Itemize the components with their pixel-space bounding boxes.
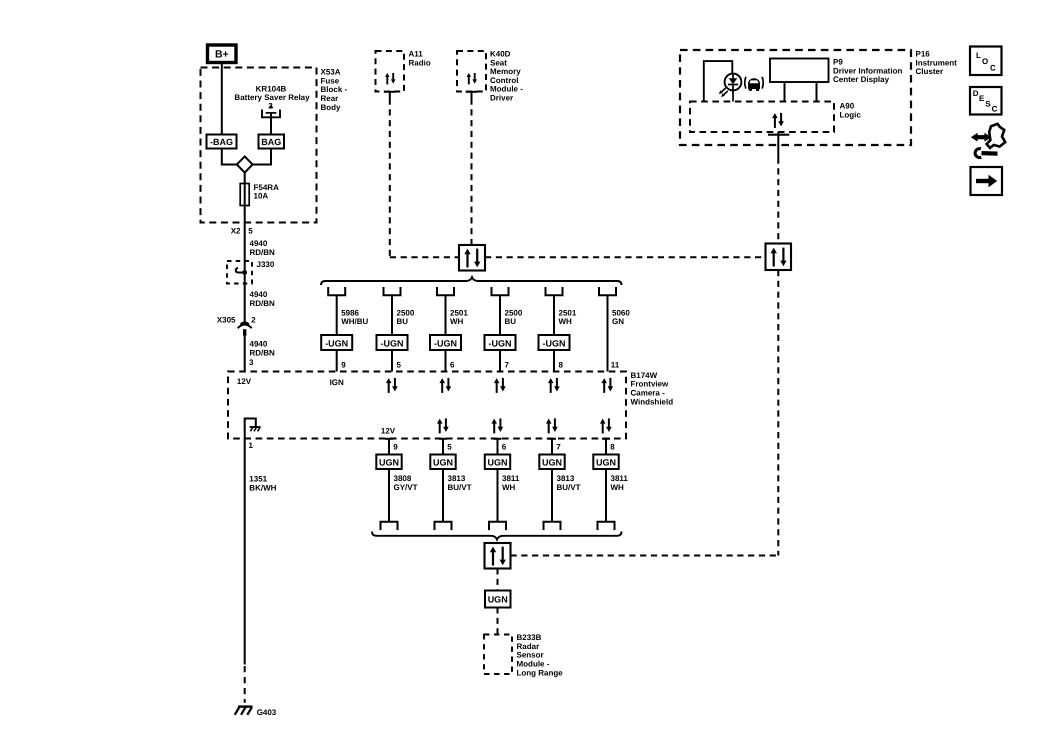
svg-text:Block -: Block - bbox=[321, 85, 348, 94]
svg-text:RD/BN: RD/BN bbox=[250, 248, 276, 257]
svg-text:3813: 3813 bbox=[448, 474, 466, 483]
svg-text:2500: 2500 bbox=[397, 308, 415, 317]
svg-text:X53A: X53A bbox=[321, 68, 341, 77]
svg-text:12V: 12V bbox=[237, 377, 252, 386]
svg-text:4940: 4940 bbox=[250, 239, 268, 248]
terminal box UGN bbox=[430, 455, 455, 470]
connector cup down wire 2 bbox=[435, 522, 452, 530]
svg-text:8: 8 bbox=[610, 443, 615, 452]
wire 2501 WH bbox=[445, 295, 447, 371]
module K40D Seat Memory Control dashed box bbox=[457, 50, 523, 103]
svg-text:Rear: Rear bbox=[321, 94, 339, 103]
svg-text:WH: WH bbox=[559, 317, 573, 326]
arrows pin 11 bbox=[601, 378, 613, 393]
svg-text:3811: 3811 bbox=[611, 474, 629, 483]
wire K40D serial data (dashed) bbox=[471, 99, 473, 246]
battery positive B+ terminal bbox=[208, 45, 237, 63]
svg-text:5: 5 bbox=[397, 360, 402, 369]
terminal box -UGN wire 1 bbox=[321, 335, 352, 350]
svg-text:S: S bbox=[985, 99, 991, 108]
svg-text:6: 6 bbox=[450, 360, 455, 369]
svg-text:2: 2 bbox=[251, 316, 256, 325]
svg-text:WH: WH bbox=[450, 317, 464, 326]
svg-text:WH: WH bbox=[502, 483, 516, 492]
pin bar 7 bbox=[548, 439, 556, 455]
terminal box -BAG bbox=[207, 135, 237, 149]
brace under radar connector bbox=[372, 532, 622, 540]
terminal box -UGN wire 5 bbox=[539, 335, 570, 350]
svg-text:Control: Control bbox=[490, 76, 518, 85]
K40D pin terminal bar bbox=[466, 92, 478, 99]
legend forward arrow box bbox=[971, 167, 1003, 195]
svg-text:2500: 2500 bbox=[505, 308, 523, 317]
wire 3808 GY/VT bbox=[388, 469, 390, 522]
arrows bottom pin 5 bbox=[437, 418, 449, 433]
svg-text:5: 5 bbox=[248, 227, 253, 236]
svg-text:10A: 10A bbox=[254, 192, 269, 201]
label X53A Fuse Block - Rear Body bbox=[321, 68, 348, 112]
wire dashed junction to right riser bbox=[511, 555, 779, 557]
svg-text:Seat: Seat bbox=[490, 58, 507, 67]
pin bar 9 bbox=[385, 439, 393, 455]
svg-text:L: L bbox=[976, 51, 981, 60]
pin bar 6 bbox=[494, 439, 502, 455]
svg-text:K40D: K40D bbox=[490, 50, 511, 59]
svg-text:-BAG: -BAG bbox=[210, 137, 233, 147]
svg-text:UGN: UGN bbox=[488, 595, 508, 605]
svg-text:5060: 5060 bbox=[612, 308, 630, 317]
ground G403 symbol bbox=[235, 707, 253, 715]
svg-text:9: 9 bbox=[393, 443, 398, 452]
svg-text:Radio: Radio bbox=[409, 58, 431, 67]
arrows pin 7 bbox=[494, 378, 506, 393]
terminal box UGN bbox=[593, 455, 618, 470]
connector cup wire 3 bbox=[437, 287, 454, 295]
svg-text:3813: 3813 bbox=[557, 474, 575, 483]
internal chassis ground symbol bbox=[250, 427, 261, 431]
wire B+ to -BAG bbox=[221, 63, 223, 135]
svg-text:RD/BN: RD/BN bbox=[250, 299, 276, 308]
wire 5060 GN bbox=[607, 295, 609, 371]
svg-text:UGN: UGN bbox=[596, 457, 616, 467]
svg-text:IGN: IGN bbox=[330, 378, 344, 387]
arrows pin 6 bbox=[439, 378, 451, 393]
terminal box UGN bbox=[539, 455, 564, 470]
arrows bottom pin 8 bbox=[600, 418, 612, 433]
svg-text:J330: J330 bbox=[257, 260, 275, 269]
instrument cluster P16 dashed box bbox=[680, 50, 957, 145]
diamond junction node bbox=[237, 156, 253, 172]
svg-text:Radar: Radar bbox=[517, 642, 540, 651]
svg-text:GN: GN bbox=[612, 317, 624, 326]
terminal box -UGN wire 4 bbox=[485, 335, 516, 350]
wire coil to BAG bbox=[270, 113, 272, 135]
lane car telltale icon bbox=[745, 77, 764, 91]
svg-text:Logic: Logic bbox=[840, 110, 862, 119]
svg-text:D: D bbox=[973, 89, 979, 98]
svg-text:-UGN: -UGN bbox=[489, 338, 512, 348]
svg-text:1351: 1351 bbox=[249, 475, 267, 484]
LED indicator bbox=[725, 74, 742, 102]
terminal box UGN radar bbox=[485, 591, 511, 608]
arrows bottom pin 7 bbox=[546, 418, 558, 433]
wire dashed A11 to junction box bbox=[390, 256, 459, 258]
wire 3813 BU/VT bbox=[442, 469, 444, 522]
wire dashed to G403 bbox=[244, 666, 246, 703]
connector cup wire 4 bbox=[492, 287, 509, 295]
A90 serial data arrows bbox=[772, 113, 784, 128]
connector cup down wire 5 bbox=[598, 522, 615, 530]
svg-text:Windshield: Windshield bbox=[631, 397, 674, 406]
svg-text:C: C bbox=[992, 105, 998, 114]
svg-text:Module -: Module - bbox=[490, 85, 523, 94]
wire P16 serial data (dashed) bbox=[777, 158, 779, 244]
serial data junction box lower bbox=[485, 543, 511, 569]
svg-text:-UGN: -UGN bbox=[381, 338, 404, 348]
connector cup down wire 4 bbox=[544, 522, 561, 530]
svg-text:7: 7 bbox=[505, 360, 510, 369]
connector cup wire 5 bbox=[546, 287, 563, 295]
svg-text:12V: 12V bbox=[381, 427, 396, 436]
svg-text:RD/BN: RD/BN bbox=[250, 348, 276, 357]
pin bar 5 bbox=[439, 439, 447, 455]
A11 serial data arrows bbox=[385, 73, 396, 84]
arrows pin 8 bbox=[548, 378, 560, 393]
svg-text:Sensor: Sensor bbox=[517, 651, 544, 660]
svg-text:B233B: B233B bbox=[517, 633, 542, 642]
svg-text:G403: G403 bbox=[257, 708, 277, 717]
svg-text:2501: 2501 bbox=[450, 308, 468, 317]
fuse block X53A dashed outline bbox=[201, 68, 317, 223]
connector cup down wire 3 bbox=[489, 522, 506, 530]
connector cup wire 2 bbox=[384, 287, 401, 295]
connector cup wire 6 bbox=[599, 287, 616, 295]
wire X305 to camera pin 3 bbox=[244, 336, 246, 372]
wire label 4940 RD/BN bbox=[250, 340, 276, 358]
svg-text:BK/WH: BK/WH bbox=[249, 483, 276, 492]
brace over camera connector bbox=[321, 277, 622, 285]
wire 3811 WH bbox=[497, 469, 499, 522]
svg-text:A11: A11 bbox=[409, 50, 424, 59]
wire dashed junction down to UGN bbox=[497, 569, 499, 591]
svg-text:-UGN: -UGN bbox=[543, 338, 566, 348]
connector cup wire 1 bbox=[328, 287, 345, 295]
svg-text:Driver Information: Driver Information bbox=[833, 66, 902, 75]
svg-text:11: 11 bbox=[611, 360, 620, 369]
arrows pin 5 bbox=[386, 378, 398, 393]
wire label 4940 RD/BN bbox=[250, 239, 276, 257]
svg-text:Module -: Module - bbox=[517, 660, 550, 669]
svg-text:B+: B+ bbox=[215, 49, 229, 61]
LED emission arrows bbox=[719, 88, 728, 97]
wire J330 to X305 bbox=[244, 273, 246, 323]
svg-text:-UGN: -UGN bbox=[434, 338, 457, 348]
module A11 Radio dashed box bbox=[376, 50, 431, 92]
svg-text:B174W: B174W bbox=[631, 371, 658, 380]
svg-text:Driver: Driver bbox=[490, 94, 513, 103]
svg-text:8: 8 bbox=[559, 360, 564, 369]
svg-text:6: 6 bbox=[502, 443, 507, 452]
relay KR104B label bbox=[234, 84, 310, 110]
splice J330 junction dot and hook bbox=[236, 268, 247, 275]
display P9 Driver Information Center Display bbox=[770, 58, 902, 102]
svg-text:O: O bbox=[982, 57, 988, 66]
wire label 4940 RD/BN bbox=[250, 290, 276, 308]
indicator branch outline bbox=[704, 61, 733, 101]
svg-text:-UGN: -UGN bbox=[325, 338, 348, 348]
pin bar 8 bbox=[602, 439, 610, 455]
wire dashed junction to junction bbox=[485, 256, 766, 258]
svg-text:Fuse: Fuse bbox=[321, 76, 340, 85]
svg-text:9: 9 bbox=[341, 360, 346, 369]
wire A11 serial data (dashed) bbox=[389, 99, 391, 258]
terminal box BAG bbox=[259, 135, 285, 149]
label B174W Frontview Camera - Windshield bbox=[631, 371, 674, 406]
svg-text:1: 1 bbox=[249, 441, 254, 450]
svg-text:Body: Body bbox=[321, 103, 342, 112]
svg-text:BU: BU bbox=[505, 317, 517, 326]
wire 5986 WH/BU bbox=[336, 295, 338, 371]
connector cup down wire 1 bbox=[381, 522, 398, 530]
svg-text:A90: A90 bbox=[840, 102, 855, 111]
logic block A90 dashed box bbox=[690, 102, 861, 133]
svg-text:F54RA: F54RA bbox=[254, 183, 280, 192]
svg-text:E: E bbox=[979, 94, 985, 103]
arrows bottom pin 6 bbox=[491, 418, 503, 433]
svg-text:Center Display: Center Display bbox=[833, 75, 890, 84]
svg-text:WH: WH bbox=[611, 483, 625, 492]
P16 pin terminal bar bbox=[768, 132, 789, 158]
wire 2500 BU bbox=[391, 295, 393, 371]
terminal box UGN bbox=[485, 455, 510, 470]
wire 2501 WH bbox=[553, 295, 555, 371]
K40D serial data arrows bbox=[467, 73, 478, 84]
svg-text:UGN: UGN bbox=[542, 457, 562, 467]
A11 pin terminal bar bbox=[384, 92, 396, 99]
svg-text:BU: BU bbox=[397, 317, 409, 326]
terminal box -UGN wire 3 bbox=[430, 335, 461, 350]
wire dashed UGN to radar module bbox=[497, 608, 499, 635]
splice J330 dashed enclosure bbox=[227, 260, 275, 283]
relay KR104B coil terminal 2 connector cup bbox=[262, 104, 280, 117]
wire diamond to fuse and down to J330 bbox=[244, 173, 246, 273]
svg-text:3808: 3808 bbox=[394, 474, 412, 483]
svg-text:WH/BU: WH/BU bbox=[341, 317, 368, 326]
legend LOC box bbox=[970, 47, 1002, 76]
svg-text:X2: X2 bbox=[231, 227, 241, 236]
wire 3811 WH bbox=[605, 469, 607, 522]
legend diagnostic icon bbox=[971, 124, 1005, 158]
internal ground hook pin 1 bbox=[245, 419, 256, 439]
svg-text:Memory: Memory bbox=[490, 67, 521, 76]
wire BAG to diamond junction bbox=[253, 149, 271, 165]
svg-text:Instrument: Instrument bbox=[916, 58, 958, 67]
svg-text:5: 5 bbox=[447, 443, 452, 452]
svg-text:3811: 3811 bbox=[502, 474, 520, 483]
svg-text:UGN: UGN bbox=[433, 457, 453, 467]
svg-text:GY/VT: GY/VT bbox=[394, 483, 418, 492]
svg-text:2501: 2501 bbox=[559, 308, 577, 317]
svg-text:BU/VT: BU/VT bbox=[557, 483, 581, 492]
svg-text:UGN: UGN bbox=[488, 457, 508, 467]
svg-text:Camera -: Camera - bbox=[631, 389, 666, 398]
inline connector X305 pin 2 bbox=[217, 316, 256, 336]
legend DESC box bbox=[970, 87, 1002, 115]
wire 1351 BK/WH ground wire bbox=[244, 439, 246, 665]
wire dashed right junction down bbox=[777, 270, 779, 556]
svg-text:C: C bbox=[990, 64, 996, 73]
svg-text:X305: X305 bbox=[217, 316, 236, 325]
wire -BAG to diamond junction bbox=[222, 149, 237, 165]
svg-text:4940: 4940 bbox=[250, 290, 268, 299]
svg-text:Cluster: Cluster bbox=[916, 67, 944, 76]
svg-text:7: 7 bbox=[556, 443, 561, 452]
svg-text:Long Range: Long Range bbox=[517, 668, 564, 677]
svg-text:5986: 5986 bbox=[341, 308, 359, 317]
svg-text:4940: 4940 bbox=[250, 340, 268, 349]
connector X2 pin 5 labels bbox=[231, 227, 254, 236]
serial data junction box left bbox=[459, 245, 485, 271]
svg-text:3: 3 bbox=[249, 358, 254, 367]
serial data junction box right bbox=[766, 244, 792, 271]
terminal box UGN bbox=[376, 455, 401, 470]
fuse F54RA 10A bbox=[240, 183, 279, 206]
svg-text:UGN: UGN bbox=[379, 457, 399, 467]
svg-text:P9: P9 bbox=[833, 58, 843, 67]
camera module B174W dashed box bbox=[228, 372, 626, 439]
wire 3813 BU/VT bbox=[551, 469, 553, 522]
svg-text:BAG: BAG bbox=[261, 137, 281, 147]
radar module B233B dashed box bbox=[484, 633, 563, 677]
svg-text:P16: P16 bbox=[916, 50, 931, 59]
svg-text:BU/VT: BU/VT bbox=[448, 483, 472, 492]
terminal box -UGN wire 2 bbox=[377, 335, 408, 350]
wire 2500 BU bbox=[499, 295, 501, 371]
svg-text:Frontview: Frontview bbox=[631, 380, 670, 389]
